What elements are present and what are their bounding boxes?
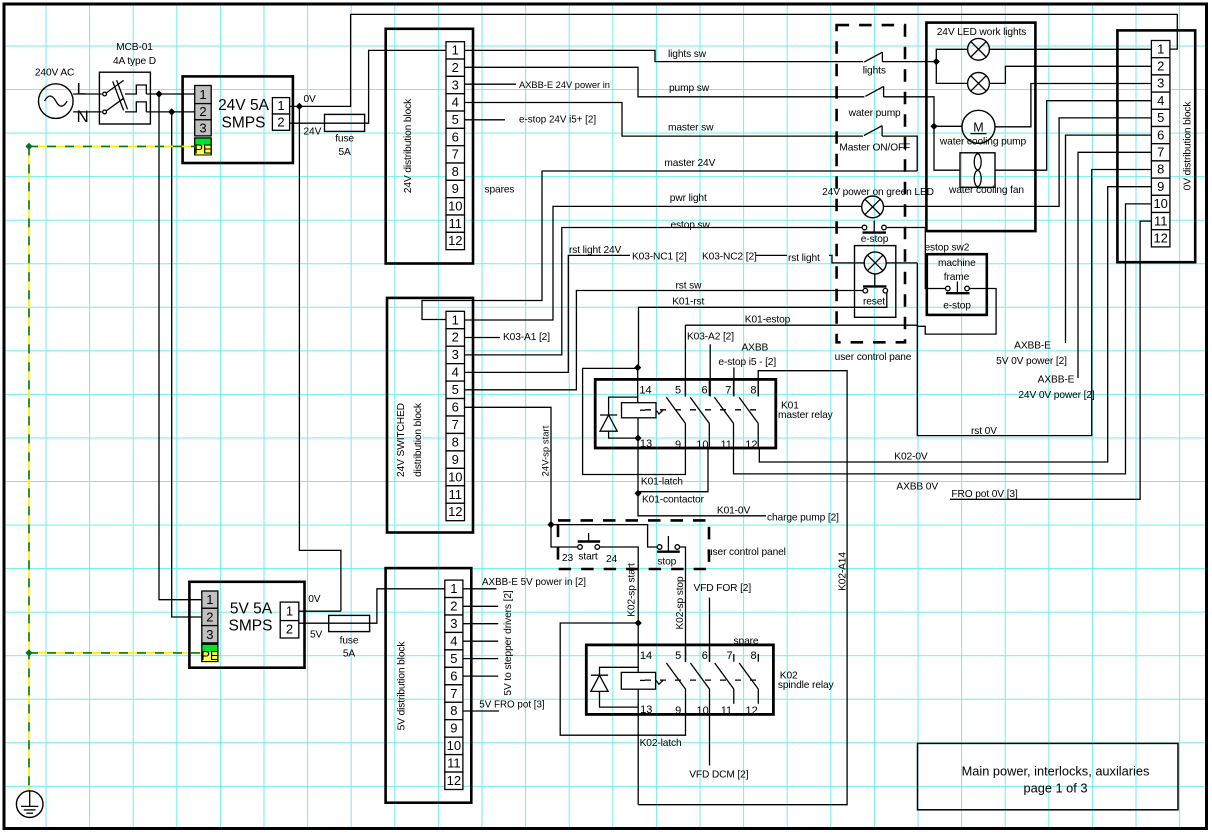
svg-text:11: 11 [720,439,731,451]
svg-text:2: 2 [199,104,206,119]
wire vertical bus down to rst 0V [917,170,1151,436]
wire FRO pot 0V stub to 0V t11 [950,221,1151,499]
wire estop sw from switched t3 [465,228,863,355]
svg-text:10: 10 [448,469,462,484]
wire AXBB 0V pin11 to 0V t10 [734,204,1152,474]
svg-text:AXBB: AXBB [742,343,769,354]
svg-text:11: 11 [1154,213,1168,228]
svg-text:8: 8 [751,650,757,662]
svg-text:3: 3 [452,347,459,362]
svg-text:13: 13 [640,438,652,450]
switch lights [863,52,886,76]
terminals 1-12 of 5V block [445,580,463,789]
svg-text:PE: PE [201,648,219,663]
svg-text:3: 3 [199,120,206,135]
svg-text:K02-latch: K02-latch [640,738,682,749]
svg-text:5: 5 [1157,110,1164,125]
svg-text:4: 4 [452,95,459,110]
K01 flyback diode [600,397,638,438]
svg-text:24V 5A: 24V 5A [218,97,270,114]
switch water pump [848,86,901,119]
svg-text:6: 6 [450,668,457,683]
svg-text:3: 3 [452,77,459,92]
K02 contact 8-12 spare [739,654,758,704]
svg-text:12: 12 [745,705,757,717]
wire K02-0V pin12 to 0V t9 [759,187,1151,462]
K02 contact 5-9 [666,645,685,715]
K01 contact 5-9 [666,379,685,448]
svg-text:distribution block: distribution block [413,402,424,477]
wire pin7 stub AXBB e-stop i5- [733,367,735,396]
node motor junction [930,123,937,130]
svg-text:PE: PE [194,142,212,157]
svg-text:user control panel: user control panel [707,547,786,558]
lamp rst light [864,252,886,274]
terminal block 0V distribution [1117,30,1195,262]
svg-text:2: 2 [452,60,459,75]
svg-text:fuse: fuse [340,636,359,647]
wire 5V FRO pot stub from 5V t8 [463,710,499,712]
svg-text:charge pump [2]: charge pump [2] [767,512,839,523]
wire machine frame estop loop to rst 0V line [917,289,996,335]
svg-text:7: 7 [725,385,731,397]
circuit breaker MCB-01 [99,42,156,124]
svg-text:7: 7 [450,686,457,701]
svg-text:lights: lights [863,66,886,77]
wire VFD DCM stub K02 pin10 [709,714,711,765]
relay K01 box [595,379,776,448]
wire PE dashed horizontal to 24V SMPS [29,145,195,147]
svg-text:water cooling pump: water cooling pump [939,136,1027,147]
svg-text:spare: spare [734,636,759,647]
svg-text:e-stop i5 - [2]: e-stop i5 - [2] [718,357,776,368]
wire junction to motor [934,125,962,127]
wire AXBB-E 24V 0V power stub to 0V t7 [1078,152,1151,378]
svg-text:reset: reset [863,297,885,308]
wire start to K02 pin14 [600,547,639,672]
svg-text:K03-NC1 [2]: K03-NC1 [2] [632,252,687,263]
wire work light 2 to 0V t2 [989,66,1151,83]
svg-text:24V power on green LED: 24V power on green LED [822,187,934,198]
wire stop to K02 pin5 [680,547,686,662]
svg-text:9: 9 [450,721,457,736]
svg-text:K03-A2 [2]: K03-A2 [2] [687,332,734,343]
wire K01-rst from reset to K01 pin 14 [639,293,887,368]
wire 5V t3 stub [463,623,498,625]
svg-text:12: 12 [448,504,462,519]
svg-text:N: N [77,107,89,126]
svg-text:10: 10 [447,738,461,753]
svg-text:8: 8 [750,385,756,397]
motor water cooling pump [939,110,1027,147]
svg-text:10: 10 [696,705,708,717]
wire junction to work light 1 [936,49,967,61]
node K01-contactor junction [634,490,641,497]
K02 coil [621,672,655,804]
svg-text:6: 6 [452,400,459,415]
svg-text:AXBB 0V: AXBB 0V [896,481,938,492]
svg-text:page 1 of 3: page 1 of 3 [1023,781,1087,796]
node N junction [168,108,175,115]
svg-text:5V to stepper drivers [2]: 5V to stepper drivers [2] [503,590,514,695]
svg-text:10: 10 [1153,196,1167,211]
svg-text:rst sw: rst sw [676,280,703,291]
svg-text:VFD DCM [2]: VFD DCM [2] [689,770,749,781]
svg-text:12: 12 [1153,231,1167,246]
svg-text:K02-sp start: K02-sp start [627,563,638,617]
wire master sw down to master 24V [882,136,917,171]
svg-text:1: 1 [1157,41,1164,56]
box rst light and reset [855,246,896,318]
wire rst lamp to vertical bus [886,262,917,264]
svg-text:24V SWITCHED: 24V SWITCHED [396,403,407,477]
svg-text:3: 3 [1157,76,1164,91]
svg-text:8: 8 [450,703,457,718]
svg-text:5A: 5A [338,147,351,158]
svg-text:K01-estop: K01-estop [745,314,791,325]
node start junction [547,521,554,528]
wire AXBB-E 24V power in stub from t3 [465,83,517,85]
wire pump sw from t2 [465,67,865,97]
pushbutton e-stop sw2 [946,282,970,294]
pushbutton stop [657,536,680,568]
svg-text:7: 7 [452,417,459,432]
node PE junction bottom [25,649,32,656]
wire 5V t4 stub [463,640,498,642]
svg-text:5V 0V power [2]: 5V 0V power [2] [996,356,1067,367]
wire K02 latch pin9 loop [560,623,685,735]
svg-text:rst light: rst light [788,253,820,264]
K02 flyback diode [591,667,638,707]
wire 0V down to 5V SMPS output [299,106,341,611]
svg-text:11: 11 [447,756,461,771]
svg-text:spares: spares [485,184,515,195]
svg-text:5: 5 [452,382,459,397]
svg-text:0V: 0V [304,94,317,105]
node 0V junction [296,103,303,110]
wire AXBB-E 5V power in stub from 5V t1 [463,588,497,590]
svg-text:K02-0V: K02-0V [894,452,928,463]
svg-text:AXBB-E 5V power in [2]: AXBB-E 5V power in [2] [482,577,586,588]
svg-text:e-stop: e-stop [861,234,889,245]
svg-text:2: 2 [206,610,213,625]
svg-text:14: 14 [640,650,652,662]
K01 contact 8-12 [739,379,758,448]
node L junction [155,90,162,97]
svg-text:1: 1 [452,43,459,58]
svg-text:240V AC: 240V AC [35,68,74,79]
wire work light 1 to 0V t1 [989,48,1151,50]
wire lights sw to lamps junction [882,61,936,63]
svg-text:L: L [77,80,86,99]
svg-text:1: 1 [206,592,213,607]
wire rst sw from switched t5 to reset [465,291,863,390]
AC source 240V [35,68,89,127]
svg-text:5: 5 [675,650,681,662]
svg-text:MCB-01: MCB-01 [116,42,153,53]
svg-text:2: 2 [452,330,459,345]
wire 24V output to fuse [290,122,325,124]
wire pin6 stub K03-A2 [709,344,711,396]
svg-text:11: 11 [721,705,732,717]
K02 pin labels top [640,650,757,662]
wire K01 latch pin9 loop [583,368,686,474]
wire master 24V to switched t1 [422,171,917,320]
svg-text:K01-rst: K01-rst [672,297,704,308]
svg-text:SMPS: SMPS [222,115,266,132]
svg-text:VFD FOR [2]: VFD FOR [2] [694,583,752,594]
lamp power on green LED [862,196,884,218]
wire junction to work light 2 [936,62,967,84]
svg-text:8: 8 [1157,162,1164,177]
svg-text:SMPS: SMPS [229,618,273,635]
wire pin5 stub [684,325,686,396]
svg-text:7: 7 [452,147,459,162]
svg-text:K02-A14: K02-A14 [838,552,849,591]
box estop sw2 machine frame [925,243,987,315]
fan water cooling fan [948,153,1024,196]
wire K01 pin13 coil- down to K01-0V [638,438,766,516]
svg-text:AXBB-E 24V power in: AXBB-E 24V power in [519,80,610,90]
svg-text:3: 3 [450,616,457,631]
K02 contacts: linkage dashed line [645,679,760,681]
svg-text:K01-0V: K01-0V [717,505,751,516]
svg-text:12: 12 [745,439,757,451]
terminal block 24V switched distribution [387,298,473,533]
wire pin8 to K02-A14 vertical [638,371,847,805]
svg-text:13: 13 [640,704,652,716]
svg-text:6: 6 [702,650,708,662]
svg-text:9: 9 [452,452,459,467]
svg-text:8: 8 [452,164,459,179]
box 24V LED work lights [926,23,1035,232]
panel dashed box user control panel [558,520,709,569]
svg-text:10: 10 [448,199,462,214]
wire fuse to 24V distribution t1 [365,50,446,123]
svg-text:0V distribution block: 0V distribution block [1183,101,1194,191]
svg-text:5: 5 [675,385,681,397]
svg-text:user control pane: user control pane [835,352,912,363]
svg-text:1: 1 [199,87,206,102]
svg-text:2: 2 [1157,59,1164,74]
svg-text:1: 1 [286,604,293,619]
wire 0V output to top bus [290,14,1178,106]
fuse 5A (5V) [329,615,370,659]
svg-text:24: 24 [606,554,618,565]
svg-text:5A: 5A [343,649,356,660]
svg-text:Master ON/OFF: Master ON/OFF [839,143,910,154]
wire N down to 5V SMPS [172,112,202,617]
svg-text:24V LED work lights: 24V LED work lights [937,27,1026,38]
wire K03-NC2 to rst light [756,254,787,256]
wire L source to MCB [73,93,102,95]
wire PE dashed vertical to ground [28,146,30,791]
svg-text:6: 6 [1157,127,1164,142]
power supply 5V 5A SMPS [189,582,304,668]
wire e-stop 24V stub from t5 [465,119,506,121]
wire lights sw from t1 [465,50,864,61]
svg-text:9: 9 [1157,179,1164,194]
wire AXBB-E 5V 0V power stub to 0V t6 [1066,135,1152,343]
svg-text:pump sw: pump sw [669,83,710,94]
svg-text:4A type D: 4A type D [113,56,156,67]
wire L down to 5V SMPS [159,94,202,600]
svg-text:5V distribution block: 5V distribution block [397,641,408,731]
svg-text:K01-latch: K01-latch [641,476,683,487]
wire pwr light from switched t1 [465,206,862,320]
svg-text:K03-NC2 [2]: K03-NC2 [2] [702,252,757,263]
fuse 5A (24V) [325,114,365,158]
svg-text:e-stop 24V i5+ [2]: e-stop 24V i5+ [2] [519,115,596,126]
svg-text:fuse: fuse [335,134,354,145]
svg-text:8: 8 [452,434,459,449]
svg-text:estop sw2: estop sw2 [925,243,970,254]
svg-text:23: 23 [562,553,574,564]
wire rst light into lamp [829,255,864,263]
relay K02 box [586,645,773,715]
svg-text:K01-contactor: K01-contactor [642,494,705,505]
wire e-stop to machine frame switch [886,228,945,289]
svg-text:9: 9 [675,439,681,451]
svg-text:Main power, interlocks, auxila: Main power, interlocks, auxilaries [962,764,1150,779]
svg-text:rst 0V: rst 0V [971,426,997,437]
svg-text:1: 1 [450,581,457,596]
svg-text:24V 0V power [2]: 24V 0V power [2] [1018,390,1095,401]
K01 coil [622,368,657,439]
svg-text:6: 6 [452,129,459,144]
label K03-A1 [2] stub from switched t2 [465,337,501,339]
wire K01-contactor pin10 [638,448,708,492]
svg-text:pwr light: pwr light [670,193,707,204]
pushbutton e-stop (user panel) [861,221,889,246]
wire 5V t2 stub [463,605,498,607]
svg-text:6: 6 [702,385,708,397]
node PE junction top [25,143,32,150]
switch Master ON/OFF [839,126,910,154]
svg-text:4: 4 [450,633,457,648]
svg-text:4: 4 [452,365,459,380]
K02 pin labels bottom [640,704,758,717]
svg-text:e-stop: e-stop [943,300,971,311]
K02 contact 6-10 [690,645,709,715]
ground earth symbol [16,791,43,818]
svg-text:machine: machine [938,258,976,269]
wire fuse to 5V distribution t1 [370,589,445,623]
svg-text:0V: 0V [308,594,321,605]
wire motor to 0V t3 [995,84,1151,127]
svg-text:K03-A1 [2]: K03-A1 [2] [503,332,550,343]
lamp work light 1 [968,38,990,60]
svg-text:2: 2 [286,622,293,637]
wire lamp to reset button [874,274,876,287]
svg-text:24V-sp start: 24V-sp start [541,425,552,476]
wire 5V t6 stub [463,675,498,677]
wire VFD FOR stub K02 pin6 [709,598,711,662]
svg-text:7: 7 [726,650,732,662]
wire pwr lamp to 0V t5 [884,118,1152,206]
svg-text:5V 5A: 5V 5A [230,601,273,618]
terminal block 24V distribution [386,29,473,264]
svg-text:9: 9 [452,181,459,196]
svg-text:5: 5 [452,112,459,127]
svg-text:spindle relay: spindle relay [778,680,835,691]
pushbutton reset [863,286,888,307]
svg-text:11: 11 [449,216,463,231]
wire PE dashed horizontal to 5V SMPS [29,652,202,654]
svg-text:14: 14 [639,385,651,397]
K01 pin labels bottom [640,438,758,451]
node K01 pin14 junction [634,364,641,371]
power supply 24V 5A SMPS [183,76,293,163]
wire pump sw to motor junction [884,97,934,127]
svg-text:9: 9 [675,705,681,717]
wire to stop button [551,525,657,547]
svg-text:AXBB-E: AXBB-E [1014,341,1051,352]
svg-text:start: start [578,552,598,563]
svg-text:water cooling fan: water cooling fan [948,185,1024,196]
terminals 1-12 of 0V block [1151,41,1170,247]
svg-text:1: 1 [277,98,284,113]
svg-text:7: 7 [1157,145,1164,160]
wire 5V output to fuse [299,622,329,624]
K02 contact 7-11 spare [715,654,734,704]
svg-text:24V: 24V [304,127,322,138]
svg-text:master sw: master sw [668,123,714,134]
node lamps junction [933,58,940,65]
wire rst light 24V from switched t4 [465,255,631,372]
svg-text:estop sw: estop sw [671,220,711,231]
svg-text:lights sw: lights sw [668,49,707,60]
svg-text:master 24V: master 24V [664,158,715,169]
lamp work light 2 [968,73,990,95]
svg-text:24V distribution block: 24V distribution block [403,98,414,193]
svg-text:AXBB-E: AXBB-E [1038,375,1075,386]
K01 contact 7-11 [714,379,733,448]
svg-text:water pump: water pump [848,108,901,119]
pushbutton start [562,533,618,565]
node K01 pin13 junction [634,435,641,442]
svg-text:5V: 5V [310,629,323,640]
node K02 pin14 junction [635,619,642,626]
svg-text:3: 3 [206,627,213,642]
K01 contacts: linkage dashed line [645,409,763,411]
wire junction to fan [934,126,960,170]
wire K01-estop pin5 to 0V bus [685,324,917,326]
svg-text:2: 2 [450,599,457,614]
panel dashed box user control pane [837,25,905,342]
K01 contact 6-10 [690,379,709,448]
svg-text:2: 2 [277,115,284,130]
wire fan to 0V t4 [995,101,1151,171]
svg-text:12: 12 [448,233,462,248]
svg-text:rst light 24V: rst light 24V [569,245,622,256]
svg-text:5: 5 [450,651,457,666]
wire L MCB to SMPS input 1 [146,93,194,95]
terminal block 5V distribution [386,568,472,803]
svg-text:1: 1 [452,312,459,327]
title block [918,743,1179,809]
wire master sw from t4 [465,103,863,137]
K01 pin labels top [639,385,756,397]
wire 5V SMPS 0V output [299,610,341,612]
wire N MCB to SMPS input 2 [146,111,194,113]
svg-text:FRO pot 0V [3]: FRO pot 0V [3] [951,489,1018,500]
svg-text:frame: frame [944,272,970,283]
svg-text:master relay: master relay [778,410,834,421]
svg-text:4: 4 [1157,93,1164,108]
terminals 1-12 of switched block [446,311,465,520]
svg-text:M: M [973,121,983,135]
